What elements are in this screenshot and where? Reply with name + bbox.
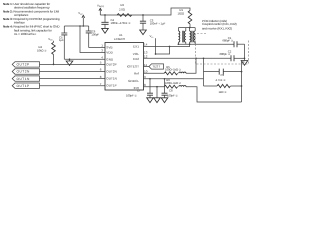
wire IN row: [144, 78, 204, 80]
resistor R4 pullup: [37, 37, 55, 65]
svg-text:100pF: 100pF: [91, 32, 99, 36]
ground left: [69, 59, 71, 61]
net flag OUT2P: [12, 61, 105, 68]
node junction C3 tap: [142, 14, 144, 16]
svg-text:R2: R2: [121, 3, 125, 7]
capacitor C4: [101, 18, 131, 28]
svg-text:14: 14: [144, 43, 148, 47]
resistor R6: [144, 78, 242, 102]
svg-text:100pF ②: 100pF ②: [167, 94, 178, 98]
ground under C3: [140, 30, 147, 35]
svg-text:Note 2: Recommended components: Note 2: Recommended components for EMI: [3, 9, 59, 13]
svg-text:VOL: VOL: [133, 52, 139, 56]
svg-text:C8: C8: [169, 88, 173, 92]
net flag OUT2N: [12, 68, 105, 75]
svg-text:2.0Ω: 2.0Ω: [119, 8, 125, 12]
net flag TEST: [144, 64, 164, 69]
svg-text:10kΩ ①: 10kΩ ①: [37, 49, 47, 53]
pin 3 VDD: [101, 49, 113, 55]
svg-text:VDD: VDD: [106, 51, 113, 55]
capacitor C5: [59, 26, 67, 59]
svg-text:3: 3: [101, 49, 103, 53]
net flag OUT1N: [12, 75, 105, 82]
ground mid: [154, 87, 161, 103]
svg-text:6: 6: [100, 68, 102, 72]
capacitor C2: [220, 49, 245, 61]
svg-text:LX34270: LX34270: [114, 37, 125, 41]
svg-text:SVB: SVB: [106, 46, 112, 50]
svg-text:100Ω–1kΩ ②: 100Ω–1kΩ ②: [165, 81, 182, 85]
inductor L1 coils: [178, 27, 195, 44]
svg-text:IO/TEST: IO/TEST: [127, 65, 139, 69]
svg-text:OUT2N: OUT2N: [106, 70, 117, 74]
svg-text:680pF ②: 680pF ②: [220, 52, 231, 56]
wire C3 drop: [142, 15, 144, 21]
capacitor C7: [126, 79, 153, 103]
wire coil drop: [189, 44, 191, 46]
resistor R2: [117, 3, 132, 17]
net flag OUT1P: [12, 82, 105, 89]
capacitor C6: [86, 26, 105, 47]
resistor R1: [178, 8, 192, 27]
svg-text:GND: GND: [106, 57, 114, 61]
svg-text:100Ω–1kΩ ②: 100Ω–1kΩ ②: [165, 68, 182, 72]
svg-text:OUT1N: OUT1N: [106, 77, 117, 81]
wire EX stirrup: [156, 47, 170, 55]
svg-text:GNDCL: GNDCL: [128, 79, 139, 83]
svg-text:4.7nF ①: 4.7nF ①: [216, 78, 227, 82]
PCB inductor note text: [202, 19, 237, 31]
winding D: [194, 31, 195, 42]
wire VDD feed: [80, 26, 105, 53]
svg-text:5: 5: [100, 61, 102, 65]
node junction C4 tap: [104, 14, 106, 16]
winding A: [178, 31, 179, 42]
svg-text:C9: C9: [221, 73, 225, 77]
svg-text:1kΩ ①: 1kΩ ①: [219, 90, 228, 94]
pin 1 SVB: [101, 44, 112, 50]
wire pin12 row: [144, 57, 232, 59]
svg-text:100pF ②: 100pF ②: [126, 94, 137, 98]
svg-text:TEST: TEST: [152, 65, 160, 69]
wire right bus: [244, 44, 246, 60]
winding C: [190, 31, 191, 42]
svg-text:1: 1: [101, 44, 103, 48]
winding B: [184, 31, 185, 42]
capacitor C1: [222, 36, 244, 47]
svg-text:OUT1N: OUT1N: [17, 77, 31, 81]
svg-text:100nF + 1µF: 100nF + 1µF: [150, 22, 166, 26]
svg-text:12: 12: [144, 54, 148, 58]
svg-text:OUT1P: OUT1P: [17, 84, 30, 88]
svg-text:OUT2P: OUT2P: [17, 63, 30, 67]
svg-text:EX1: EX1: [133, 44, 139, 48]
svg-text:1µF: 1µF: [59, 38, 64, 42]
wire C4 drop: [104, 15, 106, 22]
wire VCC rail: [64, 25, 88, 27]
svg-text:9: 9: [144, 75, 146, 79]
pin 4 GND: [101, 55, 114, 61]
svg-text:C7: C7: [137, 88, 141, 92]
svg-text:OUT1P: OUT1P: [106, 84, 116, 88]
capacitor C8: [161, 79, 178, 103]
VIN(12) power label: [97, 3, 104, 15]
op IC U1 LX34270: [105, 33, 144, 90]
svg-text:OUT2P: OUT2P: [106, 62, 116, 66]
wire coil bottom rail: [178, 43, 234, 45]
svg-text:680pF ②: 680pF ②: [222, 39, 233, 43]
svg-text:4: 4: [101, 55, 103, 59]
VCC power label: [78, 11, 84, 26]
wire GND pin feed: [64, 58, 105, 60]
resistor R5: [144, 57, 197, 74]
core lines 2: [192, 31, 193, 43]
svg-text:8: 8: [144, 83, 146, 87]
ground under C4: [102, 28, 109, 33]
svg-text:8: 8: [100, 75, 102, 79]
ground right: [241, 61, 248, 66]
svg-text:OUT2N: OUT2N: [17, 70, 31, 74]
dashed PCB boundary: [196, 34, 249, 65]
capacitor C3: [140, 18, 166, 30]
ferrite bead FB2: [179, 85, 186, 86]
svg-text:Note 3: Required by EEPROM pro: Note 3: Required by EEPROM programming: [3, 17, 60, 21]
svg-text:Ref: Ref: [134, 71, 139, 75]
svg-text:100nF–470nF ①: 100nF–470nF ①: [111, 21, 132, 25]
svg-text:10: 10: [144, 70, 148, 74]
svg-text:and receive (RX1, RX2): and receive (RX1, RX2): [202, 26, 232, 30]
svg-text:EX2: EX2: [133, 57, 139, 61]
wire EX1: [144, 46, 191, 48]
svg-text:7: 7: [100, 82, 102, 86]
core lines: [182, 31, 183, 43]
ferrite bead FB1: [179, 72, 186, 73]
notes text block: [3, 2, 60, 36]
RC network C9 R3: [203, 57, 245, 102]
wire VL1 stub: [155, 38, 157, 54]
wire VIN rail: [100, 8, 190, 15]
svg-text:182Ω: 182Ω: [178, 12, 185, 16]
